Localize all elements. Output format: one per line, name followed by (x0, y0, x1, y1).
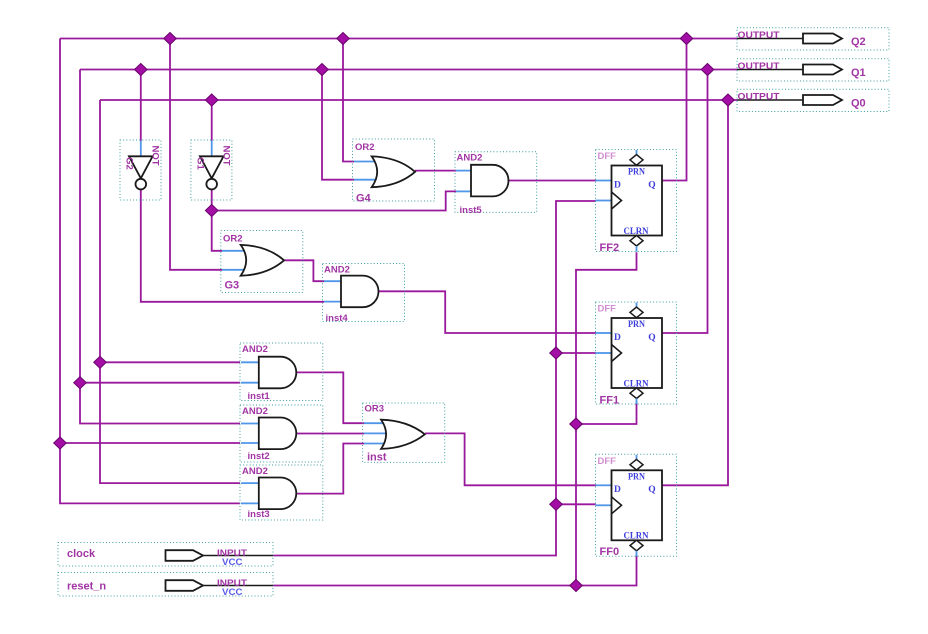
svg-text:inst2: inst2 (248, 451, 270, 462)
net inst5 output to FF2.D (509, 180, 596, 182)
svg-text:clock: clock (67, 548, 96, 560)
AND2 gate inst5 (455, 152, 537, 216)
junction W3/FF0.Q (722, 94, 735, 106)
wire vertical x=60 down to inst3 lower (60, 39, 240, 504)
wire FF0.Q to W3 (662, 100, 728, 485)
wire clock branch to FF1 clock (556, 352, 596, 354)
wire branch to inst1 upper input (100, 361, 240, 363)
wire vertical x=100 down to inst3 upper (100, 100, 240, 483)
net inst2 output to OR3 input 2 (296, 433, 364, 435)
wire vertical x=322 to G4 lower input (322, 70, 354, 180)
wire vertical x=80 down to inst2 upper (80, 70, 240, 424)
svg-text:FF1: FF1 (600, 395, 620, 407)
svg-text:G2: G2 (124, 157, 135, 170)
AND2 gate inst2 (240, 405, 323, 462)
wire FF1.Q to W2 (662, 70, 708, 334)
wire reset branch vertical x=576 to FF2 CLRN (576, 252, 637, 585)
svg-text:G1: G1 (194, 157, 205, 170)
svg-text:inst5: inst5 (460, 205, 483, 216)
svg-text:AND2: AND2 (242, 344, 268, 355)
wire reset branch to FF1 CLRN (576, 402, 637, 425)
svg-text:OUTPUT: OUTPUT (738, 61, 780, 72)
AND2 gate inst1 (240, 343, 323, 402)
svg-text:AND2: AND2 (324, 265, 350, 276)
junction G1 output node (205, 205, 218, 217)
svg-text:G3: G3 (225, 280, 240, 292)
svg-text:FF2: FF2 (600, 242, 620, 254)
svg-text:FF0: FF0 (600, 546, 620, 558)
net reset : from reset_n pin to FF0 CLRN (273, 555, 637, 586)
svg-text:Q1: Q1 (851, 67, 866, 79)
NOT gate G2 (120, 140, 161, 200)
wire FF2.Q to W1 (662, 39, 687, 181)
svg-text:inst: inst (367, 452, 387, 464)
wire vertical x=140 to NOT G2 input (140, 70, 142, 142)
junction W1/x343 (337, 33, 350, 45)
svg-text:AND2: AND2 (242, 406, 268, 417)
junction FF1 CLRN (570, 418, 583, 430)
svg-text:DFF: DFF (598, 456, 617, 467)
junction W2/x322 (316, 64, 329, 76)
OR2 gate G3 (221, 231, 303, 293)
wire branch from node at (212,210.5) to inst5 lower input (212, 191, 456, 210)
junction W1/x170 (164, 33, 177, 45)
svg-text:DFF: DFF (598, 304, 617, 315)
net inst4 output to FF1.D (378, 291, 596, 333)
wire vertical x=343 to G4 upper input (343, 39, 354, 162)
svg-text:Q2: Q2 (851, 36, 866, 48)
svg-text:inst3: inst3 (248, 509, 270, 520)
svg-text:NOT: NOT (220, 145, 231, 165)
svg-text:OUTPUT: OUTPUT (738, 92, 780, 103)
svg-text:OUTPUT: OUTPUT (738, 30, 780, 41)
D flip-flop FF1 (DFF) (596, 302, 677, 407)
net OR3 output to FF0.D (425, 433, 595, 485)
AND2 gate inst4 (323, 264, 405, 325)
wire branch to inst2 lower input (60, 442, 240, 444)
wire branch to inst1 lower input (80, 382, 240, 384)
svg-text:OR2: OR2 (223, 234, 243, 245)
junction W2/NOT G2 input (135, 64, 148, 76)
wire W3 horizontal y=100 (100, 99, 737, 101)
wire W2 horizontal y=69 (80, 69, 737, 71)
wire W1 horizontal y=38 (60, 38, 737, 40)
svg-text:OR2: OR2 (355, 142, 375, 153)
OR2 gate G4 (353, 139, 435, 205)
NOT gate G1 (191, 140, 232, 200)
junction inst2 lower input (54, 437, 67, 449)
svg-text:inst4: inst4 (326, 313, 349, 324)
output pin Q1 (737, 59, 889, 81)
junction FF1 clock (550, 347, 563, 359)
D flip-flop FF2 (DFF) (596, 150, 677, 255)
net G4 output to inst5 upper input (415, 170, 456, 172)
junction reset/x576 (570, 580, 583, 592)
svg-text:G4: G4 (356, 193, 372, 205)
junction inst1 lower input (74, 377, 87, 389)
svg-text:OR3: OR3 (365, 404, 385, 415)
wire vertical x=170 to G3 lower input (170, 39, 222, 270)
junction FF0 clock (550, 498, 563, 510)
wire clock branch to FF0 clock (556, 503, 596, 505)
net G3 output to inst4 upper input (285, 260, 324, 281)
junction W1/FF2.Q (680, 33, 693, 45)
svg-text:AND2: AND2 (242, 466, 268, 477)
input pin clock (58, 543, 273, 568)
output pin Q2 (737, 28, 889, 50)
wire vertical x=212 to NOT G1 input (211, 100, 213, 141)
svg-text:NOT: NOT (150, 145, 161, 165)
input pin reset_n (58, 573, 273, 598)
svg-text:inst1: inst1 (248, 391, 271, 402)
net inst1 output to OR3 input 1 (296, 372, 364, 423)
svg-text:AND2: AND2 (457, 153, 483, 164)
junction W2/FF1.Q (701, 64, 714, 76)
OR3 gate inst (363, 403, 445, 464)
svg-text:DFF: DFF (598, 151, 617, 162)
net G2 output to inst4 lower input (141, 190, 324, 302)
output pin Q0 (737, 89, 889, 111)
net G1 output to G3 upper input and inst5 lower input (212, 190, 222, 251)
junction inst1 upper input (94, 356, 107, 368)
svg-text:Q0: Q0 (851, 97, 866, 109)
AND2 gate inst3 (240, 465, 323, 520)
junction W3/NOT G1 input (205, 94, 218, 106)
net clock : from input pin to FF clock pins (273, 201, 596, 556)
D flip-flop FF0 (DFF) (596, 454, 677, 558)
net inst3 output to OR3 input 3 (296, 444, 364, 494)
svg-text:reset_n: reset_n (67, 580, 106, 592)
